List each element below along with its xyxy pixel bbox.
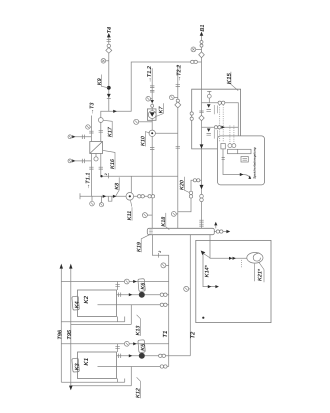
svg-text:K7: K7 xyxy=(158,106,164,114)
svg-text:T96: T96 xyxy=(58,329,64,340)
svg-text:K10: K10 xyxy=(140,136,146,146)
svg-text:K6: K6 xyxy=(140,282,146,290)
svg-text:K1: K1 xyxy=(83,357,90,365)
svg-text:K17: K17 xyxy=(107,126,113,137)
svg-text:K8: K8 xyxy=(114,183,120,190)
svg-text:T1: T1 xyxy=(162,330,169,338)
svg-text:→T3: →T3 xyxy=(90,102,96,115)
svg-text:K16: K16 xyxy=(110,158,116,169)
svg-text:K9: K9 xyxy=(97,78,103,85)
svg-text:K20: K20 xyxy=(180,180,186,190)
svg-text:T2: T2 xyxy=(190,331,197,339)
svg-text:K12: K12 xyxy=(135,388,141,398)
svg-text:2: 2 xyxy=(104,173,108,176)
svg-text:→T2.2: →T2.2 xyxy=(176,64,182,82)
svg-text:K21*: K21* xyxy=(258,268,264,281)
svg-text:K19: K19 xyxy=(136,242,142,252)
svg-text:K18: K18 xyxy=(161,217,167,227)
svg-text:2: 2 xyxy=(158,251,162,254)
svg-text:B1: B1 xyxy=(200,24,206,31)
svg-text:→T1.2: →T1.2 xyxy=(147,65,153,83)
svg-text:K13: K13 xyxy=(135,326,141,336)
svg-text:K14*: K14* xyxy=(205,264,211,277)
svg-text:K15: K15 xyxy=(226,73,233,85)
svg-text:K11: K11 xyxy=(127,211,133,221)
svg-text:T4: T4 xyxy=(107,26,113,33)
svg-text:→T1.1: →T1.1 xyxy=(85,173,91,190)
svg-text:T95: T95 xyxy=(67,329,73,340)
svg-text:K4: K4 xyxy=(74,301,80,308)
svg-text:K3: K3 xyxy=(74,363,80,370)
svg-text:Speicherladeregelung: Speicherladeregelung xyxy=(253,147,257,179)
svg-text:K5: K5 xyxy=(140,343,146,351)
svg-text:K2: K2 xyxy=(83,295,90,303)
